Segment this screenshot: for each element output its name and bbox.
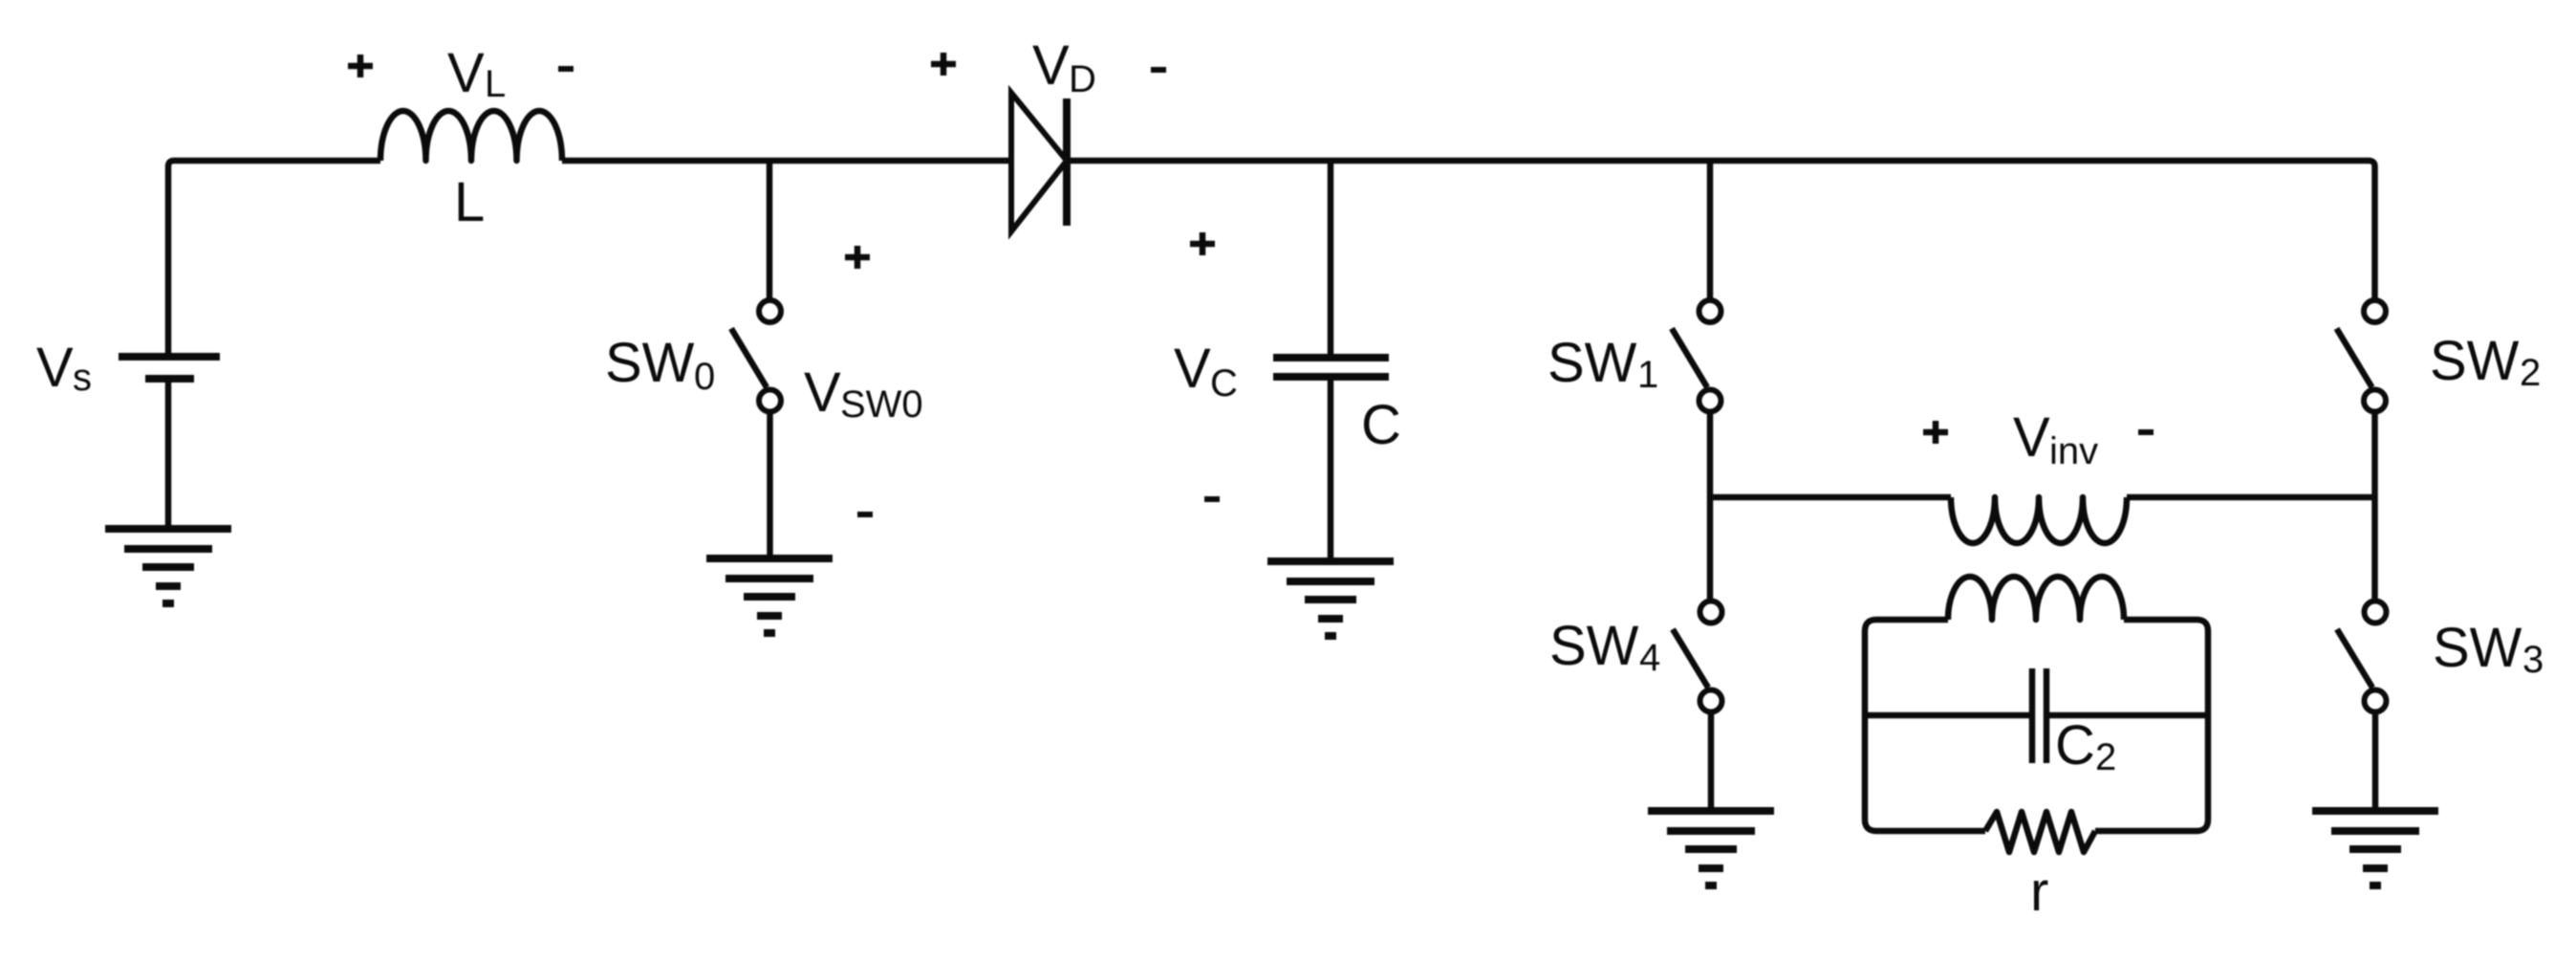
svg-text:s: s [73, 357, 92, 399]
label + (VD polarity) [931, 53, 956, 76]
svg-text:SW: SW [605, 332, 695, 394]
wire: inductor L to diode anode [562, 158, 1011, 164]
ground (SW3) [2312, 811, 2438, 885]
svg-text:2: 2 [2095, 736, 2116, 778]
wire: diode cathode along top rail to SW2 corner [1067, 161, 2375, 300]
label + (Vinv polarity) [1923, 421, 1948, 444]
wire: tank middle branch right of C2 [2046, 712, 2208, 719]
svg-text:V: V [36, 337, 74, 399]
wire: SW0 to ground [767, 412, 773, 559]
label - (VD polarity) [1151, 67, 1166, 73]
wire: tank top-left edge [1865, 620, 1948, 631]
switch SW0 [731, 300, 781, 412]
switch SW4 [1673, 601, 1722, 712]
ground (SW0) [706, 558, 833, 633]
svg-text:r: r [2030, 861, 2048, 923]
ground (SW4) [1648, 811, 1774, 885]
svg-text:3: 3 [2522, 639, 2544, 681]
svg-text:V: V [2013, 406, 2050, 469]
svg-text:L: L [485, 63, 506, 105]
svg-text:L: L [454, 171, 485, 233]
switch SW2 [2337, 300, 2387, 412]
wire: capacitor C to ground [1328, 377, 1334, 561]
wire: SW1 through inverter node down to SW4 [1707, 412, 1714, 602]
svg-text:V: V [447, 42, 485, 104]
wire: inverter node SW1 side to transformer primary [1710, 494, 1951, 501]
diode D [1011, 93, 1067, 231]
wire: tank bottom-right and right edge up to secondary [2095, 620, 2208, 831]
transformer primary winding (Vinv) [1951, 497, 2127, 543]
svg-text:C: C [1361, 394, 1401, 456]
svg-text:0: 0 [694, 356, 715, 398]
switch SW3 [2337, 601, 2387, 712]
label + (VC polarity) [1190, 232, 1215, 255]
wire: top rail tap to capacitor C [1328, 161, 1334, 358]
wire: tank left edge down to resistor r [1865, 631, 1985, 831]
wire: SW3 to ground [2372, 712, 2379, 812]
switch SW1 [1672, 300, 1721, 412]
wire: transformer primary to SW2 side [2127, 494, 2375, 501]
capacitor C2 [2032, 668, 2046, 763]
svg-text:SW: SW [2433, 617, 2522, 679]
svg-text:C: C [2055, 714, 2095, 776]
svg-text:SW: SW [2430, 330, 2520, 392]
transformer secondary winding [1948, 577, 2124, 620]
svg-text:2: 2 [2520, 352, 2541, 394]
svg-text:SW: SW [1548, 332, 1637, 394]
wire: top rail tap to SW0 [767, 161, 773, 300]
svg-text:V: V [1174, 338, 1211, 400]
capacitor C [1273, 358, 1389, 377]
resistor r [1985, 812, 2095, 852]
wire: battery negative to ground [165, 379, 172, 529]
svg-text:SW: SW [1549, 615, 1639, 677]
ground (battery) [105, 529, 231, 603]
svg-text:C: C [1210, 362, 1238, 404]
label - (VL polarity) [558, 66, 574, 72]
label - (VC polarity) [1204, 496, 1220, 502]
label + (VL polarity) [348, 55, 373, 77]
label + (VSW0 polarity) [845, 246, 870, 269]
label - (Vinv polarity) [2138, 429, 2154, 435]
wire: Vs positive terminal up and along top rail to inductor L [168, 161, 380, 357]
svg-text:SW0: SW0 [840, 383, 923, 426]
wire: top rail tap to SW1 [1707, 161, 1714, 300]
svg-text:V: V [804, 361, 841, 424]
svg-text:4: 4 [1639, 637, 1660, 679]
svg-text:D: D [1069, 58, 1096, 100]
svg-text:1: 1 [1637, 354, 1658, 396]
inductor L [380, 111, 562, 161]
voltage source Vs (battery) [119, 357, 220, 379]
svg-text:V: V [1032, 34, 1070, 97]
wire: tank middle branch left of C2 [1865, 712, 2032, 719]
ground (capacitor C) [1267, 561, 1394, 636]
wire: SW4 to ground [1708, 712, 1715, 812]
svg-text:inv: inv [2049, 430, 2098, 472]
wire: SW2 through inverter node down to SW3 [2371, 412, 2378, 602]
label - (VSW0 polarity) [857, 512, 873, 517]
